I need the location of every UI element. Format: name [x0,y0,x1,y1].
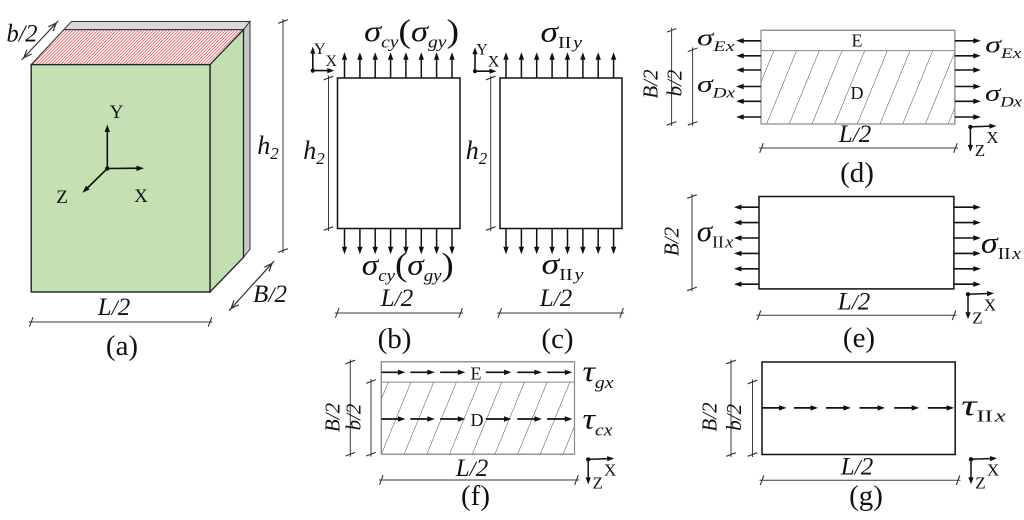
svg-text:b/2: b/2 [663,69,687,96]
stress arrows left (e) [734,205,759,287]
tension arrows bottom (b) [342,229,455,255]
panel (b) [303,14,463,355]
svg-text:X: X [987,460,999,479]
svg-text:L/2: L/2 [455,455,489,482]
dimension h2 (b) [328,76,330,232]
svg-text:b/2: b/2 [722,403,746,430]
dimension L/2 (f) [379,479,579,481]
dimension L/2 (e) [757,314,957,316]
stress arrows left (d) [736,38,761,120]
svg-text:(a): (a) [106,330,138,362]
svg-text:L/2: L/2 [380,285,414,312]
svg-text:X: X [984,295,996,314]
svg-text:Y: Y [110,102,124,123]
svg-text:E: E [471,364,482,384]
svg-text:L/2: L/2 [840,454,874,481]
svg-text:E: E [852,31,863,51]
svg-text:Z: Z [972,308,982,327]
green front face [31,65,210,292]
gray interlayer band on top face [64,22,250,30]
axes XZ (e) [966,292,970,296]
svg-text:b/2: b/2 [7,21,38,48]
panel (g) [698,360,1007,513]
shear arrows row E (f) [381,370,572,375]
E/D boundary line (d) [761,50,955,52]
axes XZ (d) [968,125,972,129]
svg-text:L/2: L/2 [837,289,871,316]
dimension L/2 (a) [29,321,213,323]
dimension b/2 (d) [692,47,694,126]
dimension L/2 (d) [759,147,958,149]
svg-text:D: D [471,410,484,430]
axes XZ (g) [969,457,973,461]
mini axes YX (c) [473,69,477,73]
svg-text:Z: Z [56,187,68,208]
svg-text:(d): (d) [840,157,874,189]
svg-text:b/2: b/2 [342,403,366,430]
svg-text:B/2: B/2 [639,69,663,99]
plate rectangle (b) [338,78,461,229]
plate rectangle (g) [762,362,955,455]
svg-text:X: X [604,460,616,479]
stress arrows right (e) [954,205,981,287]
svg-text:(f): (f) [461,480,490,512]
dimension b/2 (g) [752,380,754,458]
mini axes YX (b) [311,69,315,73]
shear arrows row D (f) [381,416,572,421]
plate rectangle (d) with E and D layers [761,30,955,124]
svg-text:(e): (e) [843,322,875,354]
svg-text:X: X [986,128,998,147]
svg-text:Z: Z [975,141,985,160]
dimension h2 (c) [490,76,492,232]
dimension B/2 (g) [730,360,732,458]
panel (d) [639,26,1023,190]
panel (f) [321,355,617,512]
plate rectangle (e) [759,197,954,289]
plate rectangle (c) [500,78,622,229]
dimension B/2 (e) [691,194,693,291]
hatched D layer (f) [381,382,574,454]
axes XZ (f) [586,457,590,461]
dimension b/2 (f) [370,379,372,457]
dimension L/2 (g) [760,479,961,481]
dimension B/2 (f) [349,360,351,457]
coordinate axes X Y Z [105,166,109,170]
svg-text:X: X [326,53,338,70]
E/D boundary line (f) [381,381,574,383]
shear arrows row (g) [762,405,954,410]
red hatched top face (section cut) [31,30,243,65]
svg-text:Y: Y [476,42,488,59]
panel (c) [466,15,624,355]
hatched D layer (d) [761,51,955,124]
svg-text:X: X [134,186,148,207]
dimension h2 [282,19,284,253]
dimension L/2 (b) [335,312,463,314]
stress arrows right (d) [955,38,981,120]
svg-text:L/2: L/2 [97,294,131,321]
svg-text:X: X [488,54,500,71]
dimension L/2 (c) [497,312,624,314]
svg-text:Z: Z [975,473,985,492]
svg-text:B/2: B/2 [660,226,684,256]
tension arrows top (b) [342,52,455,78]
dimension b/2 [22,21,59,60]
green right side face [210,30,244,292]
svg-text:Y: Y [314,41,326,58]
gray interlayer strip on right face [244,22,251,258]
tension arrows top (c) [503,52,616,78]
svg-text:D: D [851,83,864,103]
svg-text:(c): (c) [541,323,573,355]
svg-text:L/2: L/2 [539,285,573,312]
svg-text:(b): (b) [378,323,412,355]
dimension B/2 (d) [671,28,673,126]
svg-text:B/2: B/2 [698,402,722,432]
dimension B/2 (a) [229,261,274,311]
panel (e) [660,194,1022,354]
svg-text:B/2: B/2 [253,281,287,308]
svg-text:Z: Z [593,473,603,492]
svg-text:(g): (g) [849,480,883,512]
tension arrows bottom (c) [503,229,616,255]
plate rectangle (f) with E and D layers [381,362,574,454]
panel (a) 3D half-model box [7,19,288,362]
svg-text:L/2: L/2 [838,121,872,148]
